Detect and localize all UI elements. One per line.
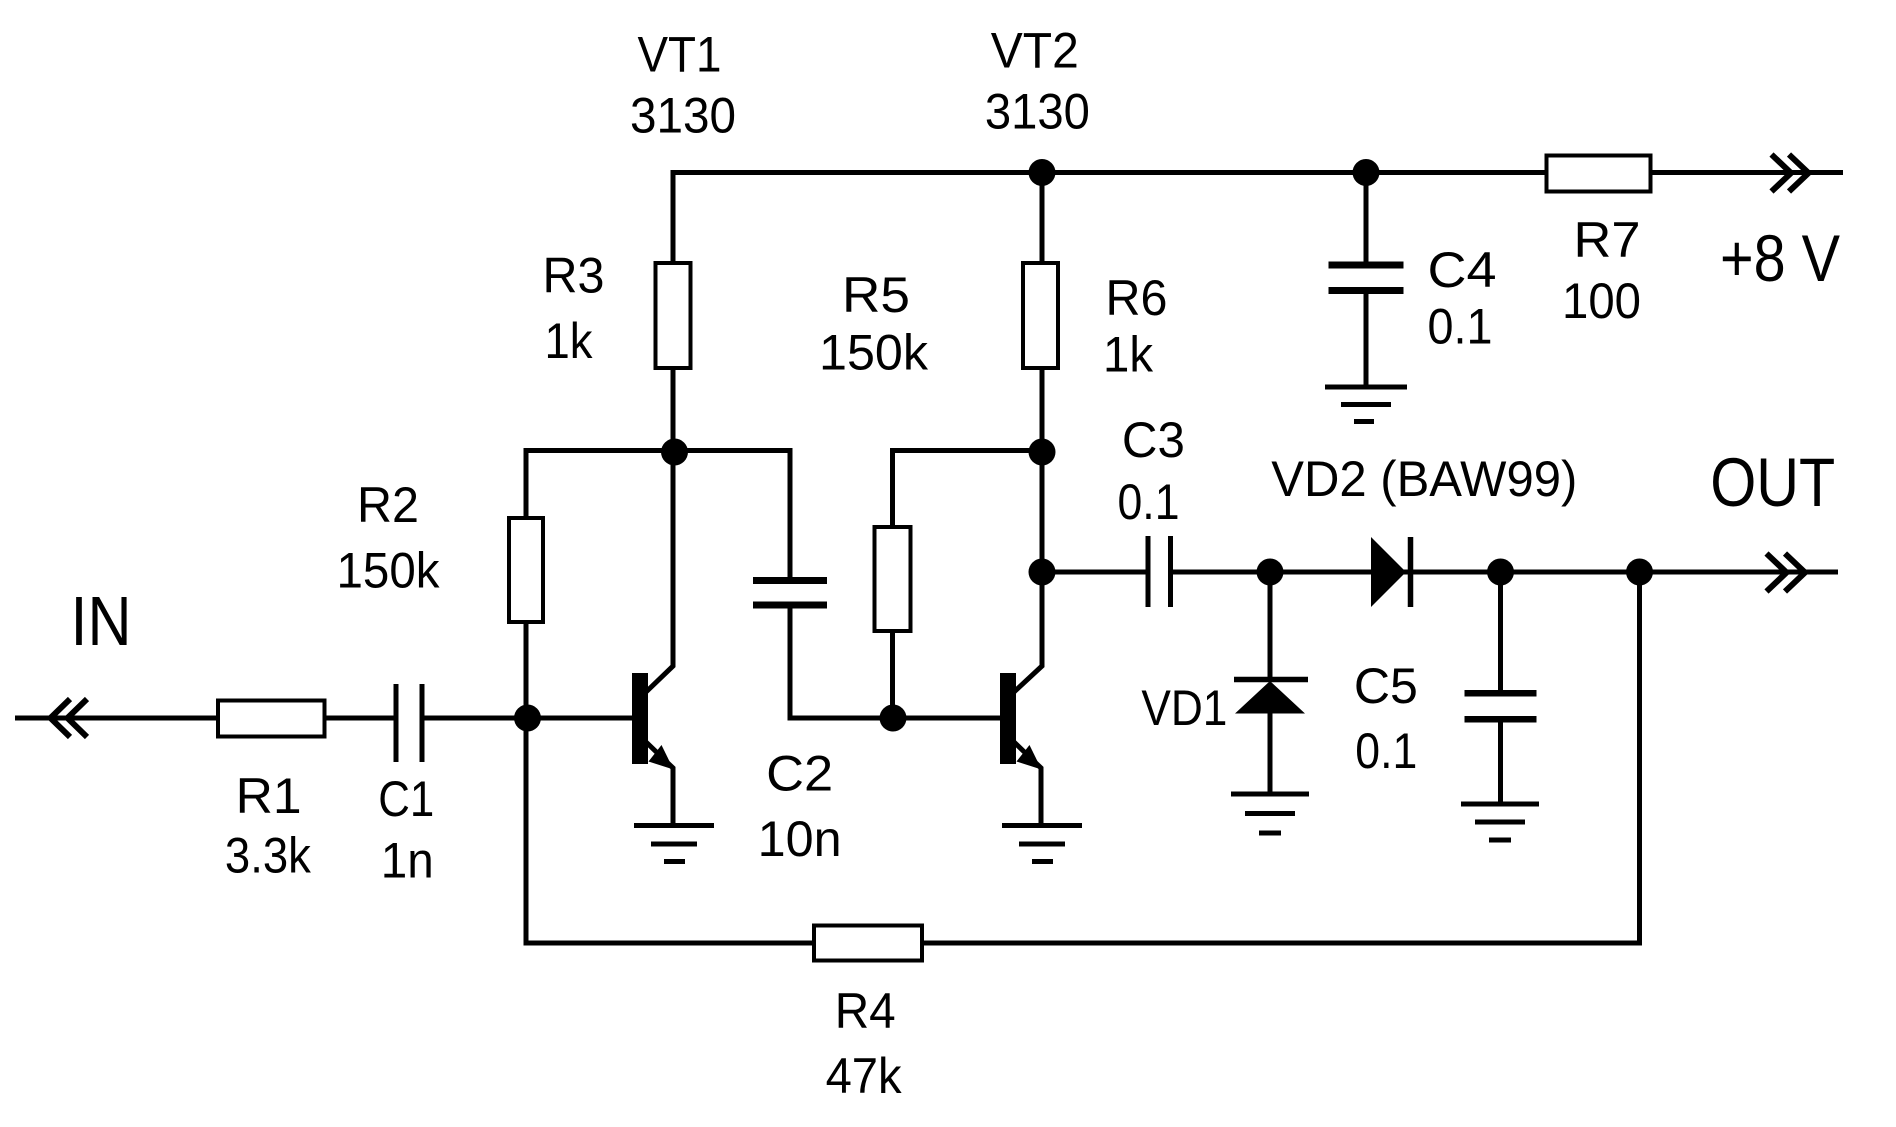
svg-text:3130: 3130 — [630, 88, 736, 144]
svg-text:3.3k: 3.3k — [225, 827, 312, 883]
svg-text:C5: C5 — [1354, 658, 1418, 714]
svg-text:+8 V: +8 V — [1720, 221, 1840, 295]
svg-text:VT2: VT2 — [991, 23, 1079, 79]
svg-text:C1: C1 — [378, 771, 434, 827]
svg-text:VD1: VD1 — [1141, 680, 1227, 736]
svg-text:150k: 150k — [337, 543, 441, 599]
svg-text:100: 100 — [1562, 273, 1641, 329]
svg-text:10n: 10n — [758, 811, 842, 867]
svg-text:R4: R4 — [835, 983, 896, 1039]
svg-text:0.1: 0.1 — [1118, 474, 1180, 530]
svg-text:47k: 47k — [826, 1048, 903, 1104]
svg-text:R5: R5 — [842, 267, 910, 323]
svg-text:R6: R6 — [1106, 270, 1168, 326]
svg-text:R3: R3 — [543, 248, 605, 304]
svg-text:C3: C3 — [1122, 412, 1185, 468]
svg-text:1k: 1k — [1103, 326, 1154, 382]
svg-text:IN: IN — [71, 582, 132, 660]
svg-text:R1: R1 — [236, 768, 302, 824]
svg-text:1n: 1n — [381, 832, 434, 888]
svg-text:150k: 150k — [819, 325, 929, 381]
svg-text:1k: 1k — [545, 313, 594, 369]
svg-text:0.1: 0.1 — [1355, 723, 1417, 779]
svg-text:3130: 3130 — [985, 84, 1090, 140]
svg-text:R2: R2 — [357, 477, 419, 533]
svg-text:C2: C2 — [766, 746, 833, 802]
svg-text:OUT: OUT — [1710, 444, 1835, 521]
svg-text:R7: R7 — [1574, 212, 1641, 268]
svg-text:VT1: VT1 — [638, 27, 722, 83]
svg-text:VD2 (BAW99): VD2 (BAW99) — [1271, 451, 1577, 507]
svg-text:C4: C4 — [1428, 242, 1497, 298]
svg-text:0.1: 0.1 — [1428, 299, 1493, 355]
